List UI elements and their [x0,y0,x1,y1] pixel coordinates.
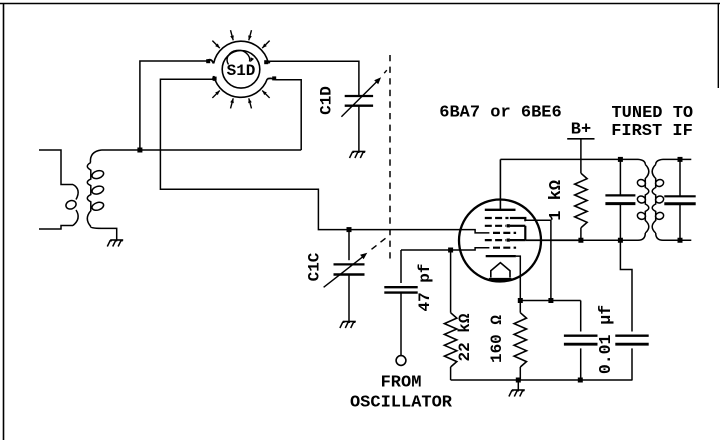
wire grid G1 from 47pf junction to tube [401,248,489,250]
junction 22k/47pf [448,248,453,253]
svg-text:TUNED TO: TUNED TO [611,104,693,123]
resistor R2 160 Ohm [514,313,526,367]
junction R3/screen [578,238,583,243]
svg-text:S1D: S1D [227,62,256,80]
wire grid G5 tie to cathode [526,220,551,300]
resistor R3 1 kOhm [575,173,587,228]
wire plate to T2 [500,158,620,160]
junction T2 secondary bottom [678,238,683,243]
ground (cathode rail) [512,389,525,391]
junction 0.01 cap bottom [578,378,583,383]
dashed gang line [389,55,391,260]
ground (C1D) [352,151,365,153]
ground (T1 secondary) [110,239,123,241]
wire T1 secondary bottom to ground [102,228,117,240]
tube V1 screen tie G2-G4 [524,226,526,240]
svg-text:47 pf: 47 pf [416,263,434,311]
wire cathode rail right [520,300,580,302]
tube V1 heater [491,263,510,278]
switch S1D stator lower arc [214,76,267,97]
ground (C1C) [343,321,356,323]
tube V1 grid row 1 (G5) [485,217,509,219]
capacitor C8 T2 secondary tuning [664,195,695,197]
variable capacitor C1D plates [345,95,373,97]
svg-text:22 kΩ: 22 kΩ [456,313,474,361]
wire T2 output stub bottom [680,239,691,241]
tube V1 envelope [459,200,541,282]
wire T2 output stub top [680,158,691,160]
variable capacitor C1C plates [334,263,365,265]
wire B+ to R3 [580,139,582,173]
wire node A up to S1D upper-left contact [140,61,207,150]
wire ground stub [517,380,519,390]
tube V1 plate lead [499,159,501,209]
switch S1D stator upper arc [214,41,269,63]
capacitor C7 T2 primary tuning leads [619,159,621,240]
tube V1 plate [485,209,516,211]
switch S1D rotor circle [222,51,260,89]
wire 47pf to terminal [400,293,402,356]
switch S1D position arrows [231,30,234,40]
wire S1D lower-right contact down to node A [276,80,302,150]
wire R3 bottom [580,228,582,240]
capacitor C6 0.01 uF leads [620,240,632,380]
junction T2 secondary top [678,157,683,162]
junction T2 primary top [618,157,623,162]
variable capacitor C1D arrow [341,80,378,117]
junction cathode/R2 [518,298,523,303]
svg-text:FROM: FROM [381,373,422,392]
switch S1D rotation arrow [227,50,250,64]
transformer T2 secondary winding [656,159,680,164]
border frame right [717,3,719,88]
svg-text:OSCILLATOR: OSCILLATOR [350,393,453,412]
svg-text:FIRST IF: FIRST IF [611,122,693,141]
capacitor C5 0.01 uF [564,335,598,337]
capacitor C8 T2 secondary tuning leads [679,159,681,240]
wire R2 top [519,301,521,313]
wire cathode to R2 [516,256,520,300]
transformer T2 primary winding [620,159,645,164]
junction T2 primary bottom [618,238,623,243]
wire C1D to ground [358,106,360,152]
wire C1C to ground [348,275,350,322]
svg-text:6BA7 or 6BE6: 6BA7 or 6BE6 [439,104,561,123]
capacitor C5 0.01 uF leads [580,301,582,381]
tube V1 grid row 5 (G1 osc) [493,247,516,249]
border frame left [3,3,5,440]
wire C1C top [348,230,350,261]
transformer T1 primary winding [39,150,73,185]
terminal FROM OSCILLATOR [396,356,406,366]
svg-text:C1C: C1C [306,252,324,281]
terminal B+ bar [567,138,594,140]
capacitor C2 47 pf [384,286,417,288]
border frame top [0,3,720,5]
svg-text:C1D: C1D [317,86,335,115]
wire 47pf top [400,250,402,283]
wire bottom rail [451,379,633,381]
svg-text:160 Ω: 160 Ω [488,315,506,363]
capacitor C6 0.01 uF [615,335,648,337]
resistor R1 22 kOhm [444,313,456,367]
wire S1D lower-left contact to tube grid G3 [160,79,489,233]
wire S1D upper-right contact to C1D [267,61,359,96]
junction node A [137,148,142,153]
wire screen rail to T2 [581,239,621,241]
junction bottom ground [516,378,521,383]
transformer T1 secondary winding [90,150,101,163]
svg-text:1 kΩ: 1 kΩ [547,180,566,221]
junction G5 tie [548,298,553,303]
tube V1 cathode [486,255,516,257]
junction C1C node [347,227,352,232]
tube V1 grid row 4 (G2) [485,239,507,241]
svg-text:0.01 µf: 0.01 µf [596,305,615,374]
wire node A: T1 secondary top across to S1D lower-right drop [102,149,302,151]
capacitor C7 T2 primary tuning [605,194,635,196]
tube V1 grid row 3 (G3 signal) [493,232,516,234]
wire R2 bottom [519,367,521,380]
svg-text:B+: B+ [571,121,591,140]
wire R1 top [450,250,452,313]
wire screen to B+ dropping resistor [525,239,581,241]
tube V1 grid row 2 (G4) [485,225,507,227]
switch S1D wiper hooks and contacts [207,60,214,64]
wire R1 bottom [450,367,452,380]
variable capacitor C1C arrow [324,256,365,288]
